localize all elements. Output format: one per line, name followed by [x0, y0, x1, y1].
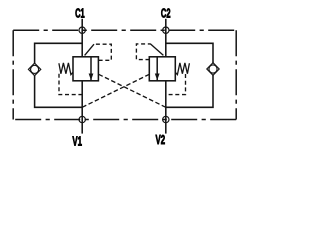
svg-text:V1: V1 — [72, 135, 82, 149]
svg-text:V2: V2 — [156, 133, 166, 147]
svg-text:C1: C1 — [75, 6, 85, 20]
svg-text:C2: C2 — [161, 6, 171, 20]
